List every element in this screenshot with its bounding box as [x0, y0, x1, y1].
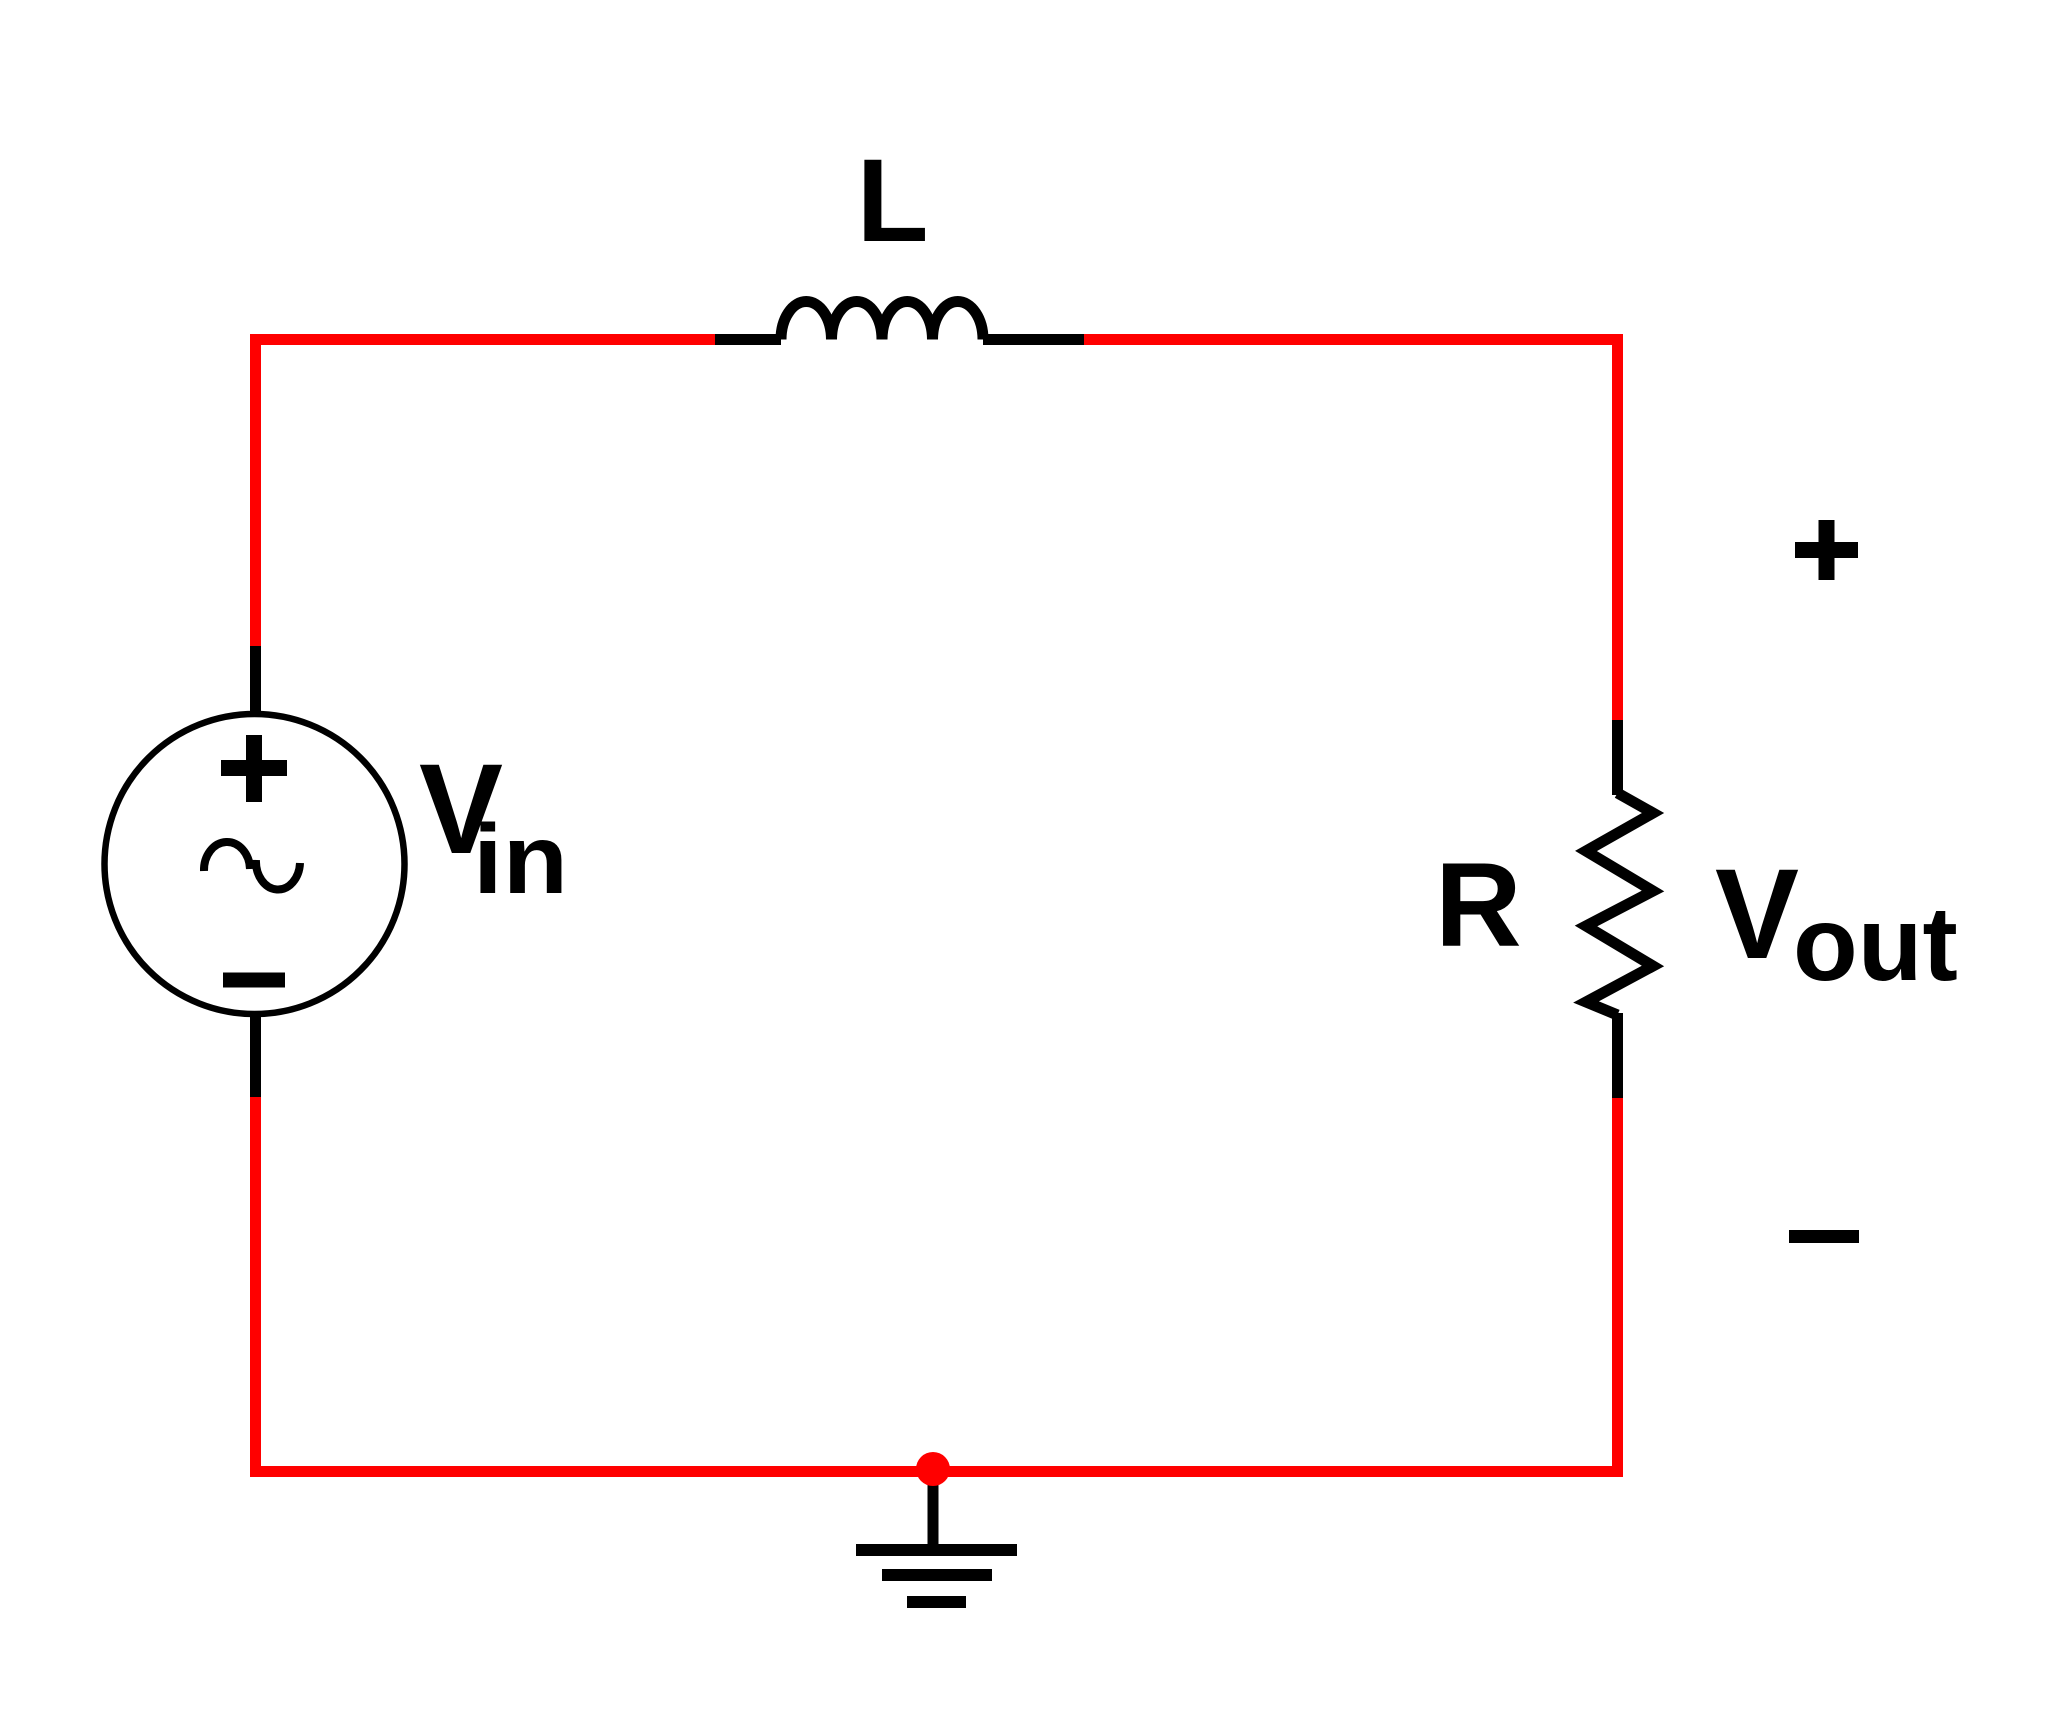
svg-text:out: out: [1793, 885, 1958, 1003]
svg-text:V: V: [1715, 843, 1799, 986]
svg-text:L: L: [857, 135, 929, 267]
svg-text:in: in: [473, 804, 568, 914]
svg-text:R: R: [1435, 838, 1522, 972]
